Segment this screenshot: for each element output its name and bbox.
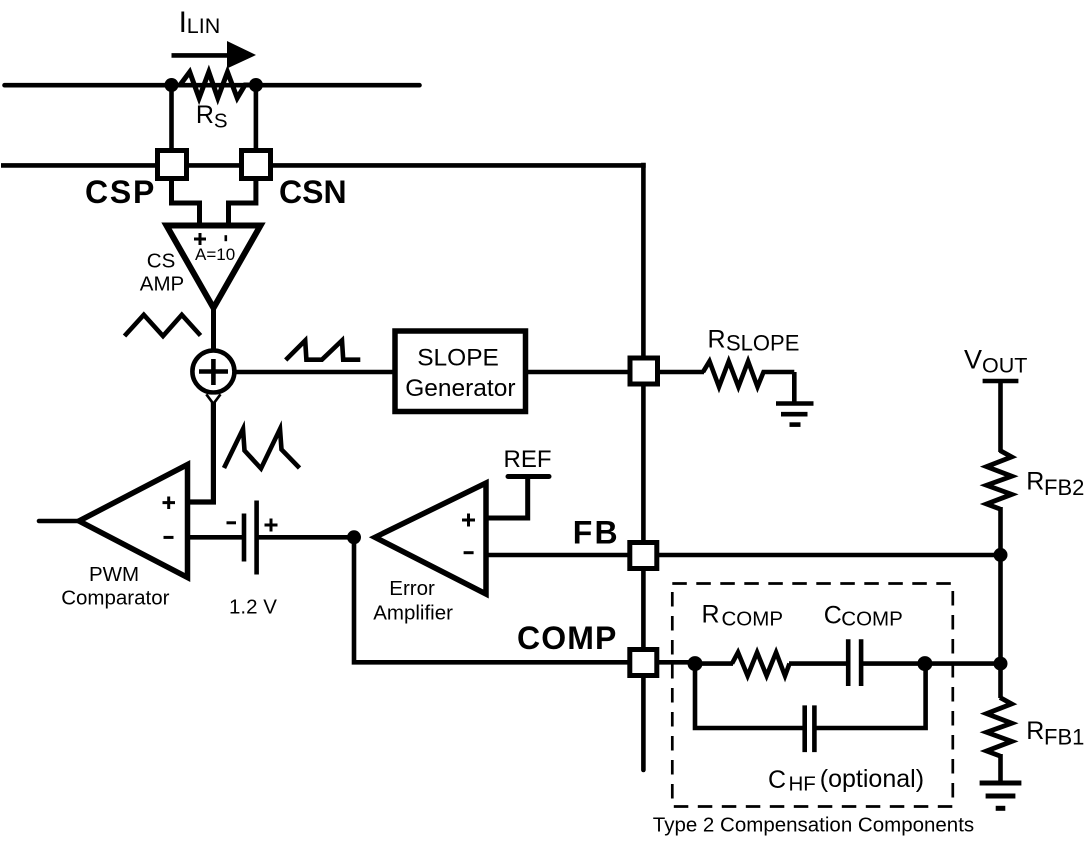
capacitor CHF — [805, 705, 815, 752]
svg-text:(optional): (optional) — [820, 765, 924, 793]
wire summer to PWM plus input — [189, 392, 213, 502]
svg-text:FB2: FB2 — [1044, 475, 1084, 500]
resistor RS — [180, 72, 249, 98]
resistor RFB1 — [987, 698, 1012, 757]
node FB junction — [994, 548, 1008, 562]
waveform triangle wave — [125, 315, 201, 336]
wire RSLOPE to ground — [792, 372, 797, 402]
svg-text:SLOPE: SLOPE — [726, 331, 799, 356]
wire VOUT to RFB2 — [998, 381, 1003, 452]
node error amp output — [347, 530, 361, 544]
wire top rail — [5, 83, 420, 88]
svg-text:COMP: COMP — [517, 620, 617, 656]
wire slope generator to bus — [528, 370, 628, 375]
wire PWM minus input to battery — [188, 535, 244, 540]
wire CSP to CS amp plus input — [172, 180, 200, 223]
wire CSN to CS amp minus input — [229, 180, 256, 223]
svg-text:HF: HF — [789, 773, 816, 796]
wire PWM output lead — [39, 519, 80, 524]
label CS AMP — [140, 249, 184, 295]
svg-text:COMP: COMP — [841, 607, 903, 630]
label Error Amplifier — [373, 577, 453, 624]
svg-text:A=10: A=10 — [195, 245, 235, 264]
wire right node to RFB1 node — [925, 661, 1001, 666]
svg-text:R: R — [1026, 717, 1044, 745]
label RFB1 — [1026, 717, 1084, 749]
wire second rail — [1, 163, 646, 168]
op-amp Error Amplifier — [375, 483, 486, 594]
pin COMP square — [630, 650, 657, 676]
wire CHF branch — [695, 664, 926, 728]
label ILIN — [179, 6, 221, 39]
svg-text:C: C — [824, 601, 842, 629]
ground RFB1 — [980, 783, 1022, 808]
wire CSP dot to square — [169, 85, 174, 148]
label RFB2 — [1026, 468, 1084, 500]
svg-text:CSN: CSN — [279, 174, 347, 210]
label VOUT — [964, 345, 1027, 378]
capacitor CCOMP — [848, 639, 861, 686]
op-amp CS AMP — [167, 226, 261, 309]
svg-text:R: R — [702, 600, 720, 628]
arrow ILIN direction — [172, 41, 257, 69]
resistor RCOMP — [732, 652, 790, 675]
label CHF optional — [768, 765, 924, 796]
label RSLOPE — [708, 326, 800, 356]
node COMP right junction — [917, 656, 932, 671]
wire battery to error amp output node — [257, 535, 354, 540]
wire CSN dot to square — [254, 85, 259, 148]
wire CCOMP to right node — [861, 661, 925, 666]
svg-text:CS: CS — [147, 249, 175, 272]
wire error amp output node to COMP — [354, 537, 630, 662]
terminal REF — [486, 477, 549, 519]
label CCOMP — [824, 601, 903, 630]
label RCOMP — [702, 600, 784, 630]
waveform PWM ramp — [224, 429, 300, 469]
wire RFB1 to ground — [998, 754, 1003, 781]
svg-text:V: V — [964, 345, 982, 375]
wire bus to RSLOPE — [659, 370, 704, 375]
label PWM Comparator — [61, 563, 169, 610]
node CSN top junction — [249, 78, 263, 92]
svg-text:R: R — [1026, 468, 1044, 496]
svg-text:CSP: CSP — [85, 174, 156, 210]
pin SLOPE square — [630, 358, 658, 384]
wire FB node to COMP node — [998, 555, 1003, 664]
node COMP bus junction — [994, 657, 1008, 671]
svg-text:Amplifier: Amplifier — [373, 602, 453, 625]
svg-text:Error: Error — [389, 577, 435, 600]
wire RCOMP to CCOMP — [789, 661, 848, 666]
pin CSN square — [242, 151, 271, 179]
summer junction — [192, 351, 234, 393]
svg-text:FB1: FB1 — [1044, 724, 1084, 749]
svg-text:1.2 V: 1.2 V — [229, 596, 277, 619]
wire RFB2 to FB node — [998, 507, 1003, 556]
svg-text:OUT: OUT — [982, 354, 1027, 378]
wire COMP square into box — [657, 660, 695, 665]
ground RSLOPE — [776, 404, 814, 425]
svg-text:S: S — [214, 110, 228, 133]
resistor RSLOPE — [703, 361, 794, 387]
wire summer to slope generator — [234, 370, 393, 375]
pin FB square — [630, 543, 657, 569]
waveform slope sawtooth — [286, 341, 361, 361]
wire vertical bus — [641, 163, 646, 356]
wire CS amp output to summer — [211, 306, 216, 350]
svg-text:Type 2 Compensation Components: Type 2 Compensation Components — [653, 814, 974, 837]
wire COMP node to RFB1 — [998, 664, 1003, 698]
battery 1.2V — [227, 501, 278, 575]
svg-text:LIN: LIN — [187, 14, 220, 38]
pin CSP square — [158, 151, 187, 179]
box Type 2 compensation dashed — [672, 584, 953, 807]
svg-text:REF: REF — [504, 446, 552, 473]
node COMP left junction — [688, 656, 703, 671]
block SLOPE Generator — [395, 331, 526, 412]
svg-text:R: R — [708, 326, 726, 354]
svg-text:R: R — [196, 101, 214, 129]
svg-text:SLOPE: SLOPE — [417, 345, 499, 372]
svg-text:AMP: AMP — [140, 273, 184, 296]
svg-text:COMP: COMP — [722, 607, 784, 630]
comparator PWM — [79, 465, 188, 578]
wire node to RCOMP — [695, 661, 733, 666]
svg-text:Generator: Generator — [405, 375, 515, 402]
wire FB square to RFB node — [657, 553, 1001, 558]
node CSP top junction — [165, 78, 179, 92]
wire error amp minus input to FB — [486, 553, 630, 558]
svg-text:I: I — [179, 6, 187, 39]
svg-text:PWM: PWM — [89, 563, 139, 586]
label RS — [196, 101, 228, 133]
arrowhead summer output — [206, 394, 220, 404]
resistor RFB2 — [987, 451, 1012, 510]
svg-text:FB: FB — [573, 514, 620, 550]
svg-text:Comparator: Comparator — [61, 587, 169, 610]
terminal VOUT — [983, 379, 1019, 384]
svg-text:C: C — [768, 766, 786, 794]
